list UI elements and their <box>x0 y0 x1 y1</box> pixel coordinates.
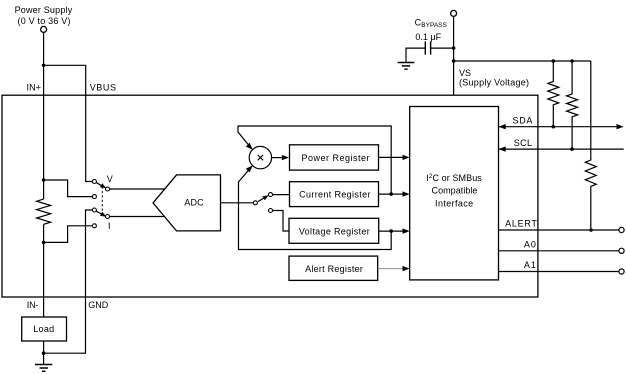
svg-text:Alert Register: Alert Register <box>305 264 363 274</box>
svg-text:ALERT: ALERT <box>505 218 537 228</box>
svg-text:Power Supply: Power Supply <box>15 5 73 15</box>
svg-text:IN-: IN- <box>27 300 39 310</box>
svg-text:I: I <box>108 221 111 231</box>
svg-text:A1: A1 <box>524 260 537 270</box>
svg-text:I2C or SMBus: I2C or SMBus <box>426 173 482 183</box>
svg-text:Load: Load <box>33 324 54 334</box>
svg-text:Interface: Interface <box>435 199 473 209</box>
svg-text:Current Register: Current Register <box>299 190 370 200</box>
svg-text:A0: A0 <box>524 240 537 250</box>
svg-text:ADC: ADC <box>184 198 204 208</box>
svg-text:SDA: SDA <box>513 116 533 126</box>
svg-text:(Supply Voltage): (Supply Voltage) <box>459 78 529 88</box>
svg-text:Voltage Register: Voltage Register <box>299 226 370 236</box>
svg-text:IN+: IN+ <box>27 83 42 93</box>
svg-text:0.1 μF: 0.1 μF <box>415 32 441 42</box>
svg-text:(0 V to 36 V): (0 V to 36 V) <box>18 16 71 26</box>
svg-text:V: V <box>107 174 113 184</box>
svg-text:VBUS: VBUS <box>90 83 116 93</box>
svg-text:VS: VS <box>459 68 471 78</box>
svg-text:SCL: SCL <box>514 138 532 148</box>
svg-text:Power Register: Power Register <box>302 153 370 163</box>
svg-text:GND: GND <box>88 300 109 310</box>
svg-text:BYPASS: BYPASS <box>421 22 447 29</box>
svg-text:Compatible: Compatible <box>432 186 478 196</box>
